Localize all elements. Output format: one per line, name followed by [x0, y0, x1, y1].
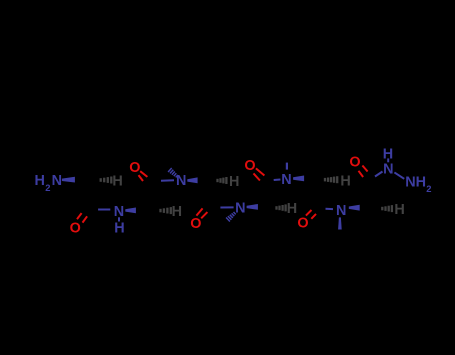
svg-text:N: N — [235, 201, 245, 217]
svg-text:O: O — [297, 215, 308, 231]
carbonyl C6=O6 double bond (red halves) — [362, 166, 367, 172]
svg-text:H: H — [229, 174, 239, 190]
amide bond C4-N5 (blue half) — [274, 179, 281, 182]
amide bond C1-N2 (blue half) — [98, 209, 110, 211]
wedge bond N2 to alpha-C2 (blue half) — [125, 208, 136, 214]
amide bond C3-N4 (blue half) — [220, 206, 233, 208]
svg-text:O: O — [70, 221, 81, 237]
carbonyl C1=O1 double bond (red halves) — [77, 213, 82, 219]
wire alpha-C1 to carbonyl C1 (black, invisible) — [88, 182, 91, 207]
svg-text:O: O — [244, 158, 255, 174]
hashed ring bond N3 to CH2 (blue half, up-left) — [168, 168, 178, 177]
bond C6-N7 to hydrazide (blue half) — [375, 172, 383, 177]
svg-text:H: H — [114, 221, 124, 237]
ring bond N6 to CH2 (blue half, vertical down) — [338, 217, 342, 229]
carbonyl C4=O4 double bond (red halves) — [256, 168, 265, 175]
svg-text:N: N — [383, 162, 393, 178]
hashed ring bond N4 to CH2 (blue half, down-left) — [226, 212, 236, 222]
bond N7-N8 (blue) — [394, 172, 404, 178]
N2-H bond linker — [118, 217, 120, 221]
wedge bond H2N to alpha-C1 (blue half) — [62, 177, 75, 183]
ring bond N5 to CH2 (blue half, vertical up) — [286, 163, 288, 170]
wedge bond N4 to alpha-C4 (blue half) — [247, 204, 258, 210]
carbonyl C3=O3 double bond (red halves) — [196, 208, 202, 215]
hash wedge alpha-C5 to H (gray half) — [325, 176, 337, 183]
svg-text:H: H — [394, 202, 404, 218]
svg-text:N: N — [281, 172, 291, 188]
hash wedge alpha-C4 to H (gray half) — [277, 204, 286, 211]
amide bond C2-N3 (blue half) — [161, 179, 174, 181]
carbonyl C2=O2 double bond (red halves) — [140, 171, 147, 177]
svg-text:N: N — [336, 203, 346, 219]
svg-text:O: O — [129, 160, 140, 176]
svg-text:O: O — [349, 155, 360, 171]
svg-text:H: H — [112, 173, 122, 189]
wedge bond N3 to alpha-C3 (blue half) — [187, 177, 197, 183]
hash wedge alpha-C1 to H (gray half) — [101, 177, 112, 184]
carbonyl C5=O5 double bond (red halves) — [306, 210, 312, 216]
wedge bond N6 to alpha-C6 (blue half) — [349, 205, 360, 211]
svg-text:H: H — [287, 201, 297, 217]
wedge bond N5 to alpha-C5 (blue half) — [293, 176, 304, 182]
svg-text:O: O — [190, 216, 201, 232]
svg-text:H: H — [172, 204, 182, 220]
amide bond C5-N6 (blue half) — [326, 208, 334, 210]
hash wedge alpha-C6 to H (gray half) — [382, 205, 392, 212]
hash wedge alpha-C2 to H (gray half) — [161, 207, 171, 214]
hash wedge alpha-C3 to H (gray half) — [218, 177, 227, 184]
N7-H bond linker — [387, 158, 389, 162]
svg-text:H: H — [340, 173, 350, 189]
